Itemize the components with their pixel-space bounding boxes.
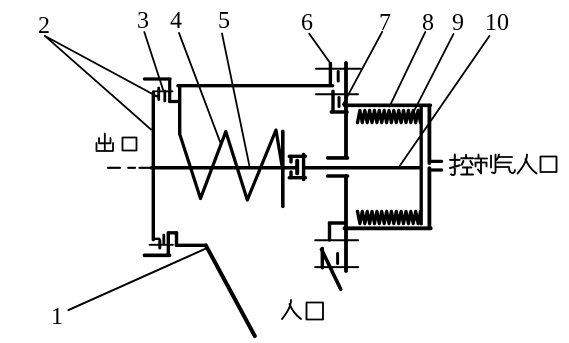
leader from 2 to gland ticks bbox=[45, 36, 157, 96]
outlet step vertical down bbox=[175, 233, 178, 246]
svg-text:5: 5 bbox=[218, 8, 230, 34]
stem end inner stub bbox=[295, 161, 299, 174]
stem guide vertical A bottom bbox=[328, 223, 331, 240]
piston stem upper bbox=[344, 63, 348, 158]
text 入口 bbox=[282, 300, 323, 320]
cylinder top plate bbox=[345, 104, 431, 108]
gland thin line top bbox=[153, 90, 173, 92]
gland thin line bottom bbox=[150, 244, 174, 246]
top gland tick 2 bbox=[338, 98, 341, 107]
bottom coil spring bbox=[358, 211, 421, 223]
leader from 4 to spring peak bbox=[179, 33, 221, 143]
stem guide bar B bbox=[331, 110, 347, 113]
gland tick 2 top bbox=[163, 91, 166, 101]
piston bar bbox=[420, 107, 423, 224]
leader from 1 to inlet corner bbox=[68, 249, 206, 311]
centerline main left segment bbox=[152, 166, 297, 170]
svg-text:7: 7 bbox=[379, 10, 391, 36]
leader from 5 to stem axis bbox=[222, 34, 249, 166]
gland tick 2 bottom bbox=[162, 235, 165, 244]
piston stem lower bbox=[344, 176, 348, 271]
seat bar right bbox=[177, 244, 206, 247]
cylinder thin line T1 bottom bbox=[315, 239, 358, 241]
bonnet vertical bbox=[168, 79, 171, 102]
cylinder thin line T2 bbox=[316, 93, 358, 95]
outlet bottom bar bbox=[145, 254, 170, 258]
stem coupling left bottom stub bbox=[289, 172, 292, 178]
cylinder bottom plate bbox=[345, 226, 431, 230]
cylinder right wall upper bbox=[427, 105, 431, 163]
chamber left wall vertical bbox=[178, 86, 181, 134]
control port stub upper bbox=[429, 160, 441, 163]
bottom pipe diagonal bbox=[322, 249, 341, 289]
stem coupling right bar bbox=[302, 155, 305, 180]
svg-text:4: 4 bbox=[170, 8, 182, 34]
bonnet hook bar bbox=[170, 100, 179, 103]
top gland bar near 6 bbox=[329, 64, 332, 86]
top gland tick bbox=[337, 72, 340, 82]
top coil spring 8 bbox=[358, 110, 421, 122]
bottom gland bar bbox=[321, 248, 324, 267]
svg-text:8: 8 bbox=[422, 10, 434, 36]
cylinder right wall lower bbox=[427, 168, 431, 228]
svg-text:10: 10 bbox=[485, 10, 509, 36]
wall stub bottom bbox=[153, 238, 159, 240]
leader from 10 to piston axis bbox=[400, 36, 489, 166]
leader from 8 to top coil bbox=[390, 32, 426, 107]
gland tick 1 bottom bbox=[158, 241, 161, 249]
wall stub top bbox=[153, 95, 159, 97]
spring seat bar bbox=[281, 131, 285, 206]
svg-text:1: 1 bbox=[51, 304, 63, 330]
chamber top line bbox=[178, 84, 333, 87]
svg-text:2: 2 bbox=[38, 13, 50, 39]
svg-text:3: 3 bbox=[137, 8, 149, 34]
bottom gland tick bbox=[336, 254, 339, 264]
stem coupling top bar bbox=[289, 155, 305, 158]
leader from 2 to left wall bbox=[45, 36, 151, 130]
cylinder thin line T2 bottom bbox=[315, 266, 358, 268]
control port stub lower bbox=[429, 168, 441, 171]
stem guide bar B bottom bbox=[330, 221, 347, 224]
valve bonnet top bar bbox=[145, 77, 171, 80]
leader from 3 bbox=[144, 32, 163, 90]
gland tick 1 top bbox=[157, 88, 160, 100]
outlet step bar right bbox=[168, 231, 176, 234]
text 出口 bbox=[97, 134, 137, 152]
centerline main right segment bbox=[306, 166, 419, 170]
svg-text:6: 6 bbox=[301, 10, 313, 36]
leader from 6 bbox=[309, 34, 331, 65]
stem coupling left top stub bbox=[289, 156, 292, 162]
leader from 9 to coil right bbox=[414, 34, 454, 111]
svg-text:9: 9 bbox=[452, 10, 464, 36]
outlet step vertical up bbox=[167, 233, 170, 255]
main spring zigzag bbox=[180, 130, 282, 200]
cylinder thin line T1 bbox=[316, 68, 361, 70]
diaphragm plate bar upper bbox=[328, 156, 348, 160]
stem guide vertical A bbox=[331, 91, 334, 112]
diaphragm plate bar lower bbox=[328, 174, 348, 178]
stem coupling bottom bar bbox=[289, 176, 305, 179]
valve body left wall bbox=[152, 93, 155, 240]
centerline dash-dot left bbox=[108, 167, 152, 169]
leader from 7 bbox=[343, 32, 382, 105]
text 控制气入口 bbox=[450, 155, 557, 176]
inlet pipe diagonal bbox=[206, 245, 255, 336]
